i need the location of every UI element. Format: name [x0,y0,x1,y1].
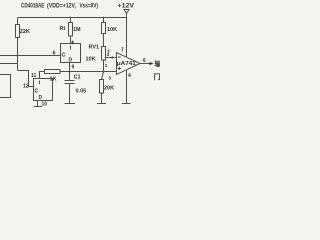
arrowhead RV1 wiper [110,56,113,59]
wire 10K top lead [103,18,105,23]
wire 20K bottom lead [101,93,103,104]
svg-text:CD4018AE: CD4018AE [21,3,44,10]
potentiometer RV1 10K body [102,47,106,61]
capacitor C1 bottom lead [69,84,71,104]
junction dot Rt at rail [70,17,72,19]
wire to box2 pin12 [18,71,34,87]
svg-text:C: C [35,89,39,95]
svg-text:Vss=0V): Vss=0V) [80,3,99,10]
svg-text:20K: 20K [104,86,114,92]
resistor R2 10K body [102,23,106,34]
svg-text:2: 2 [107,52,110,58]
IC box1 CD4018 stage (pins 1/6/9) [61,44,81,63]
svg-text:22K: 22K [20,29,30,35]
op-amp U1 triangle [117,53,141,75]
svg-text:0.05: 0.05 [76,89,87,95]
wire op-amp pin4 down [126,70,128,104]
junction dot C1/pin9 node [69,71,71,73]
svg-text:C: C [62,53,66,59]
pin 1 box1 top blob [72,41,74,44]
svg-text:1: 1 [105,63,108,69]
minus sign op-amp inverting input [118,56,121,58]
resistor R4 20K body [100,80,104,94]
svg-text:10: 10 [42,102,48,108]
wire top +12V rail [18,17,127,19]
svg-text:门: 门 [154,72,161,81]
ground bar C1 [65,103,76,105]
svg-text:3: 3 [109,76,112,82]
arrowhead output [150,62,154,65]
svg-text:10K: 10K [107,27,117,33]
wire 10K bottom to RV1 top [103,34,105,47]
svg-text:Rt: Rt [60,26,66,32]
svg-text:+12V: +12V [118,2,135,9]
wire Rt bottom lead to box1 pin1 [70,36,72,44]
wire touch plate lower [0,63,18,65]
wire box2 pin11 up to 1K [40,72,45,79]
resistor R3 1K body [45,70,61,74]
wire 22K bottom lead [17,38,19,71]
svg-text:1K: 1K [50,77,57,83]
svg-text:D: D [69,58,73,64]
wire +12V down to op-amp pin7 [126,14,128,58]
svg-text:μA741: μA741 [117,61,136,67]
wire op-amp output pin6 [140,63,150,65]
svg-text:7: 7 [121,48,124,54]
IC box2 CD4018 stage (pins 11/12/10) [34,79,53,101]
background [0,0,160,110]
wire touch plate upper (clock net) [0,55,61,57]
svg-text:RV1: RV1 [89,45,100,51]
capacitor C1 top lead [69,72,71,81]
ground bar box2 pin10 [34,106,43,108]
wire box1 pin9 down [69,63,71,72]
svg-text:输出: 输出 [155,59,161,68]
junction dot RV1 bottom node [103,71,105,73]
resistor Rt 1M body [69,23,73,37]
junction dot 10K at rail [103,17,105,19]
wire 22K top lead [17,18,19,25]
wire RV1 node to 20K top (slight slant) [102,72,104,80]
svg-text:6: 6 [53,51,56,57]
pin 1 tick inside box1 [70,46,72,50]
wire box2 pin10 down [37,101,39,107]
capacitor C1 plate bottom [65,83,75,85]
wire RV1 bottom lead [103,60,105,72]
svg-text:4: 4 [128,73,131,79]
ground bar op-amp pin4 [122,103,131,105]
resistor R1 22K body [16,25,20,38]
svg-text:11: 11 [31,73,37,79]
svg-text:(VDD=+12V,: (VDD=+12V, [47,3,76,10]
wire RV1 wiper to op-amp pin2 [106,57,117,59]
wire Rt top lead [70,18,72,23]
plus sign op-amp non-inverting input [118,67,121,70]
junction dot touch wire at 22K net [17,55,19,57]
svg-text:9: 9 [72,65,75,71]
svg-text:1M: 1M [73,27,81,33]
+12V terminal symbol [124,10,129,14]
pin tick inside box2 [39,81,41,85]
capacitor C1 plate top [65,80,75,82]
svg-text:C1: C1 [74,75,81,81]
svg-text:10K: 10K [86,57,96,63]
svg-text:12: 12 [23,84,29,90]
wire feedback net 1K to RV1 node [60,71,117,73]
svg-text:6: 6 [143,58,146,64]
svg-text:D: D [39,95,43,101]
touch plate box (cut at left edge) [0,75,11,98]
ground bar 20K [97,103,106,105]
